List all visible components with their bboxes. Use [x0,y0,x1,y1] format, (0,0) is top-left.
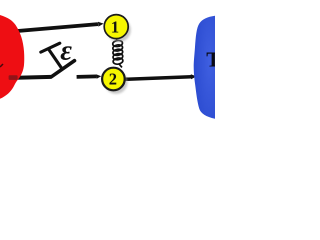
tiny mark inside red [0,64,3,67]
wire: switch to terminal 2 [77,75,97,79]
switch handle crossbar [41,43,60,52]
switch handle stem [49,50,62,69]
wire: terminal 2 to blue tuning fork [125,77,192,80]
arrowhead at terminal 2 [96,74,101,78]
terminal 1 [104,15,128,39]
dark wire segment seen through red [9,75,18,80]
wire: red bell to terminal 1 (top wire) [13,24,98,31]
spring between terminal 1 and terminal 2 [112,39,123,67]
red bell (cut off at left) [0,15,24,99]
arrowhead at terminal 1 [98,22,104,27]
svg-text:ε: ε [60,35,72,66]
blue tuning fork (cut off at right) [194,16,215,119]
svg-text:1: 1 [111,17,119,36]
shadow of terminal 2 [105,71,128,94]
switch blade [52,61,75,77]
wire: red bell to switch (bottom left wire) [7,77,52,78]
arrowhead at blue [191,74,197,79]
svg-text:T: T [206,47,215,71]
svg-text:2: 2 [109,70,117,89]
shadow of terminal 1 [107,18,131,42]
terminal 2 [102,68,125,91]
